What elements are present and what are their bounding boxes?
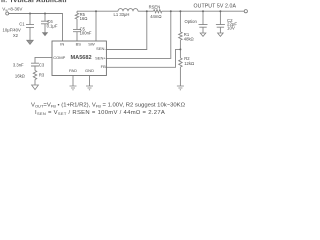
svg-text:C1: C1 (19, 22, 25, 27)
svg-text:16kΩ: 16kΩ (15, 74, 25, 79)
svg-text:PAD: PAD (69, 68, 77, 73)
svg-text:R3: R3 (39, 73, 45, 78)
svg-text:BS: BS (76, 42, 82, 47)
svg-text:10V: 10V (227, 26, 235, 31)
svg-text:X2: X2 (13, 33, 19, 38)
svg-text:OUTPUT 5V 2.0A: OUTPUT 5V 2.0A (194, 3, 237, 9)
svg-text:SEN-: SEN- (96, 46, 106, 51)
svg-text:COMP: COMP (53, 55, 65, 60)
svg-text:MA5682: MA5682 (71, 55, 92, 61)
svg-text:SW: SW (88, 42, 95, 47)
svg-text:II. Typical Application Circui: II. Typical Application Circuit Diagram (1, 0, 132, 4)
svg-text:0.1μF: 0.1μF (47, 23, 58, 28)
svg-text:FB: FB (101, 64, 106, 69)
svg-text:VOUT=VFB • (1+R1/R2), VFB = 1.: VOUT=VFB • (1+R1/R2), VFB = 1.00V, R2 su… (31, 103, 186, 109)
svg-text:IN: IN (60, 42, 64, 47)
svg-text:SEN+: SEN+ (95, 55, 106, 60)
svg-text:ISEN = VSET / RSEN = 100mV / 4: ISEN = VSET / RSEN = 100mV / 44mΩ = 2.27… (35, 110, 165, 116)
svg-text:48kΩ: 48kΩ (184, 37, 194, 42)
svg-text:L1 33μH: L1 33μH (114, 12, 130, 17)
svg-text:16Ω: 16Ω (80, 16, 88, 21)
svg-text:RSEN: RSEN (149, 4, 161, 9)
svg-text:10μF/40V: 10μF/40V (3, 27, 21, 32)
svg-text:C3: C3 (39, 62, 45, 67)
svg-text:100nF: 100nF (80, 31, 92, 36)
svg-text:VIN=8-36V: VIN=8-36V (2, 7, 22, 13)
svg-text:3.3nF: 3.3nF (13, 62, 24, 67)
svg-text:GND: GND (85, 68, 94, 73)
svg-text:12kΩ: 12kΩ (184, 61, 194, 66)
svg-text:Option: Option (185, 19, 198, 24)
svg-text:44mΩ: 44mΩ (150, 14, 161, 19)
